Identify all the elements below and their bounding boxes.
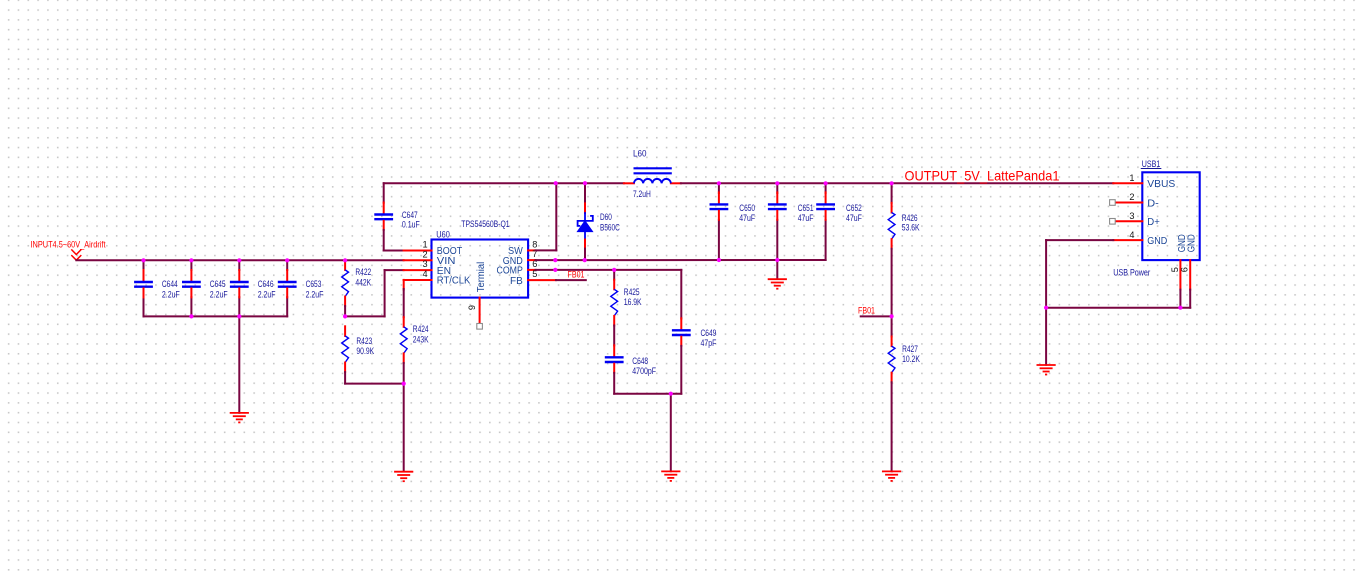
no-connect square pin 2 — [1110, 200, 1116, 206]
svg-text:C648: C648 — [632, 356, 648, 366]
wire pin5 down — [1179, 290, 1181, 308]
capacitor C647 — [383, 203, 385, 213]
wire C644 bottom lead — [143, 297, 145, 316]
svg-text:5: 5 — [1170, 267, 1180, 272]
ground — [661, 470, 680, 472]
junction — [890, 181, 894, 185]
svg-text:3: 3 — [422, 259, 427, 269]
svg-text:8: 8 — [532, 240, 537, 250]
junction — [1044, 306, 1048, 310]
svg-text:R423: R423 — [356, 336, 372, 346]
wire C650 top lead — [718, 183, 720, 193]
junction — [237, 258, 241, 262]
svg-text:9: 9 — [467, 305, 477, 310]
svg-text:C653: C653 — [306, 279, 322, 289]
svg-text:2: 2 — [1129, 192, 1134, 202]
svg-text:47pF: 47pF — [701, 338, 717, 348]
svg-text:C644: C644 — [162, 279, 178, 289]
wire R426 bottom — [891, 249, 893, 317]
svg-text:243K: 243K — [413, 334, 429, 344]
wire comp bottom rail — [614, 393, 681, 395]
pin 2 VIN — [404, 259, 432, 261]
wire C646 bottom lead — [238, 297, 240, 316]
svg-text:U60: U60 — [436, 229, 450, 239]
pin 6 GND USB1 — [1189, 260, 1191, 290]
resistor R426 — [891, 203, 893, 213]
wire C649 top riser — [680, 270, 682, 319]
resistor R422 — [344, 260, 346, 270]
wire C651 top lead — [776, 183, 778, 193]
svg-text:R424: R424 — [413, 324, 429, 334]
ground — [1037, 364, 1056, 366]
junction — [553, 268, 557, 272]
wire BOOT horizontal — [384, 250, 404, 252]
svg-text:C651: C651 — [798, 203, 814, 213]
svg-text:10.2K: 10.2K — [902, 354, 920, 364]
wire output rail — [681, 182, 1113, 184]
wire R423 to R424 node — [345, 383, 404, 385]
pin 4 RT/CLK — [404, 279, 432, 281]
junction — [1178, 306, 1182, 310]
resistor R423 — [344, 326, 346, 336]
wire C647 top corner — [383, 183, 385, 203]
svg-text:FB01: FB01 — [568, 269, 585, 280]
junction — [669, 392, 673, 396]
wire C653 top lead — [286, 260, 288, 270]
wire C652 top lead — [825, 183, 827, 193]
svg-text:442K: 442K — [355, 278, 371, 288]
wire R427 top — [891, 316, 893, 336]
ground — [230, 412, 249, 414]
resistor R427 — [891, 337, 893, 347]
junction — [343, 258, 347, 262]
wire EN riser — [384, 270, 386, 316]
wire C653 bottom lead — [286, 297, 288, 316]
pin 1 BOOT — [404, 250, 432, 252]
wire C645 top lead — [190, 260, 192, 270]
capacitor C644 — [143, 270, 145, 280]
svg-text:7.2uH: 7.2uH — [633, 189, 651, 199]
wire D60 bottom lead — [584, 249, 586, 261]
svg-text:OUTPUT_5V_LattePanda1: OUTPUT_5V_LattePanda1 — [905, 168, 1060, 184]
svg-text:2.2uF: 2.2uF — [258, 290, 276, 300]
capacitor C650 — [718, 192, 720, 202]
svg-text:53.6K: 53.6K — [902, 223, 920, 233]
svg-text:GND: GND — [1147, 236, 1167, 247]
no-connect square pin 9 — [477, 324, 483, 330]
wire EN node horizontal — [345, 315, 385, 317]
wire top rail left — [384, 182, 624, 184]
capacitor C649 — [680, 318, 682, 328]
junction — [717, 258, 721, 262]
junction — [583, 258, 587, 262]
svg-text:1: 1 — [1129, 173, 1134, 183]
capacitor C646 — [238, 270, 240, 280]
svg-text:INPUT4.5~60V_Airdrift: INPUT4.5~60V_Airdrift — [31, 240, 106, 251]
ground — [394, 471, 413, 473]
svg-text:4: 4 — [1129, 230, 1134, 240]
junction — [554, 181, 558, 185]
svg-text:16.9K: 16.9K — [624, 297, 642, 307]
wire C647 bottom — [383, 230, 385, 251]
wire input rail VIN — [76, 259, 403, 261]
svg-text:47uF: 47uF — [739, 213, 755, 223]
junction — [553, 258, 557, 262]
wire R422 bottom — [344, 306, 346, 316]
wire GND rail — [536, 259, 826, 261]
svg-text:R427: R427 — [902, 344, 918, 354]
junction — [402, 382, 406, 386]
wire C648 bottom — [613, 373, 615, 394]
wire FB stub — [556, 279, 586, 281]
svg-text:C650: C650 — [739, 203, 755, 213]
ground — [768, 278, 787, 280]
svg-text:R425: R425 — [624, 287, 640, 297]
svg-text:47uF: 47uF — [798, 213, 814, 223]
junction — [583, 181, 587, 185]
junction — [237, 314, 241, 318]
wire USB GND down — [1045, 240, 1047, 365]
junction — [775, 258, 779, 262]
svg-text:2.2uF: 2.2uF — [162, 290, 180, 300]
pin 1 VBUS USB1 — [1113, 182, 1142, 184]
svg-text:B560C: B560C — [600, 222, 620, 232]
pin 9 Termial — [479, 298, 481, 324]
capacitor C645 — [190, 270, 192, 280]
svg-text:C649: C649 — [701, 328, 717, 338]
wire R425 to C648 — [613, 326, 615, 346]
svg-text:VBUS: VBUS — [1147, 179, 1175, 190]
connector USB1 body — [1142, 172, 1199, 260]
wire C644 top lead — [143, 260, 145, 270]
svg-text:4: 4 — [422, 269, 427, 279]
svg-text:RT/CLK: RT/CLK — [437, 276, 471, 287]
junction — [285, 258, 289, 262]
svg-text:FB01: FB01 — [858, 306, 875, 317]
svg-text:USB Power: USB Power — [1113, 268, 1150, 278]
junction — [343, 314, 347, 318]
svg-text:D60: D60 — [600, 212, 612, 222]
junction — [189, 258, 193, 262]
svg-text:0.1uF: 0.1uF — [402, 219, 420, 229]
junction — [824, 181, 828, 185]
wire C649 bottom — [680, 346, 682, 394]
svg-text:D-: D- — [1147, 198, 1159, 209]
wire R427 bottom — [891, 382, 893, 471]
svg-text:2.2uF: 2.2uF — [306, 290, 324, 300]
pin 5 FB — [528, 279, 556, 281]
svg-text:6: 6 — [1180, 267, 1190, 272]
capacitor C652 — [825, 192, 827, 202]
pin 4 GND USB1 — [1113, 239, 1142, 241]
capacitor C648 — [613, 345, 615, 355]
junction — [890, 314, 894, 318]
wire USB GND bottom horizontal — [1046, 307, 1190, 309]
resistor R424 — [403, 317, 405, 327]
wire ground stem output caps — [776, 260, 778, 279]
wire SW riser — [555, 183, 557, 250]
capacitor C651 — [776, 192, 778, 202]
svg-text:D+: D+ — [1147, 217, 1160, 228]
svg-text:3: 3 — [1129, 211, 1134, 221]
pin 3 EN — [404, 269, 432, 271]
svg-text:90.9K: 90.9K — [356, 346, 374, 356]
resistor R425 — [613, 280, 615, 290]
wire C646 top lead — [238, 260, 240, 270]
wire EN to pin3 — [385, 269, 404, 271]
wire USB GND left — [1046, 239, 1113, 241]
diode D60 B560C — [584, 203, 586, 213]
svg-text:C652: C652 — [846, 203, 862, 213]
svg-text:GND: GND — [1187, 234, 1198, 252]
pin 6 COMP — [528, 269, 535, 271]
pin 7 GND — [528, 259, 535, 261]
pin 2 D- USB1 — [1115, 202, 1142, 204]
wire C650 bottom lead — [718, 220, 720, 260]
wire RT/CLK corner — [403, 280, 405, 290]
svg-text:FB: FB — [510, 276, 523, 287]
wire D60 top lead — [584, 183, 586, 203]
svg-text:R426: R426 — [902, 213, 918, 223]
wire R424 top — [403, 289, 405, 317]
svg-text:Termial: Termial — [476, 262, 487, 292]
junction — [141, 258, 145, 262]
svg-text:USB1: USB1 — [1142, 159, 1161, 169]
no-connect square pin 3 — [1110, 219, 1116, 225]
svg-text:2.2uF: 2.2uF — [210, 290, 228, 300]
wire C652 riser — [825, 220, 827, 260]
power port input chevron — [71, 249, 81, 260]
svg-text:4700pF: 4700pF — [632, 366, 656, 376]
wire pin6 down — [1189, 290, 1191, 308]
wire R425 top — [613, 270, 615, 280]
wire input cap ground bus — [144, 315, 288, 317]
wire C645 bottom lead — [190, 297, 192, 316]
svg-text:R422: R422 — [355, 267, 371, 277]
wire R423 bottom — [344, 372, 346, 384]
svg-text:2: 2 — [422, 249, 427, 259]
svg-text:C646: C646 — [258, 279, 274, 289]
svg-text:C645: C645 — [210, 279, 226, 289]
wire ground stem comp — [670, 394, 672, 472]
wire R426 top — [891, 183, 893, 203]
junction — [189, 314, 193, 318]
pin 5 GND USB1 — [1179, 260, 1181, 290]
svg-text:TPS54560B-Q1: TPS54560B-Q1 — [461, 219, 509, 229]
wire ground stem input caps — [238, 316, 240, 412]
svg-text:L60: L60 — [633, 149, 647, 159]
svg-text:1: 1 — [422, 240, 427, 250]
inductor L60 7.2uH — [624, 182, 634, 184]
pin 8 SW — [528, 249, 535, 251]
ground — [882, 470, 901, 472]
wire C651 bottom lead — [776, 220, 778, 260]
junction — [717, 181, 721, 185]
wire SW from pin8 — [536, 249, 557, 251]
wire R424 bottom — [403, 363, 405, 471]
IC U60 TPS54560B-Q1 body — [432, 240, 529, 298]
wire COMP rail — [536, 269, 682, 271]
capacitor C653 — [286, 270, 288, 280]
wire FB01 stub right — [861, 315, 892, 317]
pin 3 D+ USB1 — [1115, 220, 1142, 222]
junction — [612, 268, 616, 272]
junction — [775, 181, 779, 185]
svg-text:47uF: 47uF — [846, 213, 862, 223]
